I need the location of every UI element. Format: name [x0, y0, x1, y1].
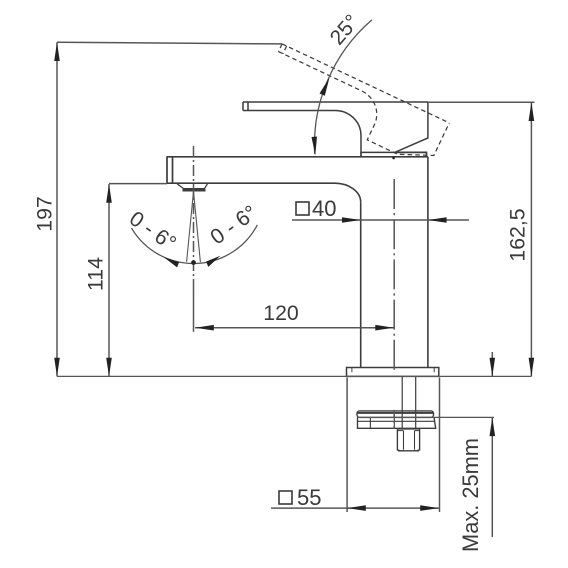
arrowheads	[54, 42, 534, 511]
square symbol for 40	[296, 202, 309, 215]
threaded shank below counter	[402, 377, 416, 429]
dimension line Max 25mm upper part	[491, 352, 493, 376]
junction dot stream	[191, 260, 196, 265]
arrow 114 top	[106, 184, 112, 203]
arrow swivel right	[206, 256, 220, 267]
faucet top face line	[167, 156, 428, 158]
dimension line 114	[108, 184, 110, 376]
thin dimension / extension lines	[57, 20, 535, 537]
arrow Max25 down	[490, 358, 496, 377]
rubber gasket washer	[357, 411, 434, 418]
svg-text:55: 55	[297, 485, 321, 510]
spout end caps	[167, 156, 173, 183]
body centerline dash-dot	[393, 179, 395, 373]
spout underside	[167, 183, 361, 202]
handle base plate	[361, 152, 427, 156]
arrow Max25 up	[490, 417, 496, 436]
arrow sq55 right	[420, 505, 439, 511]
dimension line sq55	[271, 507, 439, 509]
arrow 25deg arc middle	[320, 78, 330, 96]
svg-text:Max. 25mm: Max. 25mm	[458, 438, 483, 552]
countertop top surface line	[57, 375, 531, 377]
mounting bracket horseshoe	[358, 417, 436, 428]
dimension line 162,5	[530, 102, 532, 376]
base flange on countertop	[347, 368, 439, 377]
lever handle dashed (tilted 25 deg open position)	[261, 44, 450, 169]
stream centerline dash-dot	[193, 146, 195, 290]
dimension line sq40	[292, 219, 469, 221]
svg-text:162,5: 162,5	[506, 208, 530, 261]
arrow sq40 right	[428, 217, 447, 223]
svg-text:197: 197	[33, 196, 57, 232]
arrow 197 top	[54, 42, 60, 61]
dimension line Max 25mm lower part	[491, 417, 493, 537]
flange corner bevel lines	[352, 368, 434, 373]
pivot dot	[392, 157, 395, 160]
extension line spout underside to 114	[109, 183, 167, 185]
aerator	[177, 183, 208, 188]
arrow 162,5 bottom	[529, 358, 535, 377]
swivel arc 0-6 deg	[132, 225, 258, 264]
svg-text:114: 114	[84, 257, 108, 291]
extension line stream axis	[193, 290, 195, 332]
arrow 197 bottom	[54, 358, 60, 377]
extension lines sq55	[347, 378, 439, 513]
arrow 120 right	[375, 325, 394, 331]
countertop bottom surface line	[357, 416, 494, 418]
mounting nut	[397, 429, 419, 451]
dimension line 120	[195, 327, 394, 329]
faucet body right edge	[427, 157, 429, 368]
arrow 25deg arc bottom	[312, 137, 318, 156]
svg-text:40: 40	[312, 196, 336, 221]
arrow 120 left	[195, 325, 214, 331]
extension line top (tip of tilted lever)	[57, 42, 282, 44]
angle arc 25 deg	[314, 20, 371, 154]
arrow swivel left	[164, 257, 180, 267]
faucet body left edge	[360, 202, 362, 367]
extension line top of body to 162,5	[428, 101, 535, 103]
spray cone lines 0-6 deg	[187, 192, 201, 263]
arrow sq55 left	[347, 505, 366, 511]
square symbol for 55	[279, 491, 292, 504]
arrow 114 bottom	[106, 358, 112, 377]
body centerline in bracket	[393, 410, 395, 429]
arrow 162,5 top	[529, 102, 535, 121]
dimension line 197	[56, 42, 58, 376]
lever handle solid (closed position)	[243, 102, 428, 152]
arrow sq40 left	[342, 217, 361, 223]
svg-text:120: 120	[263, 301, 299, 325]
